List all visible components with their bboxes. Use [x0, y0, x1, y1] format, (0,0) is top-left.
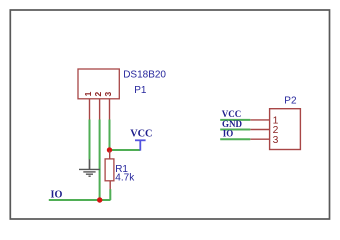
pin number 2 (P2): [273, 125, 279, 136]
svg-text:IO: IO: [51, 189, 63, 200]
connector P2 body: [270, 109, 301, 150]
power symbol VCC (bar): [135, 140, 146, 150]
pin 2 of P1: [99, 99, 101, 120]
net label IO (left): [51, 189, 63, 200]
pin 3 of P2: [250, 138, 269, 140]
pin 2 of P2: [250, 129, 269, 131]
net label VCC (P2): [222, 109, 242, 119]
svg-text:IO: IO: [223, 129, 234, 139]
svg-text:P1: P1: [134, 85, 147, 96]
wire pin3 down to junction: [109, 120, 111, 151]
svg-text:P2: P2: [284, 96, 297, 107]
designator R1: [115, 164, 128, 175]
wire pin2 down to IO net: [99, 120, 101, 201]
wire IO horizontal: [49, 199, 111, 201]
svg-text:GND: GND: [222, 119, 243, 129]
designator P2: [284, 96, 297, 107]
svg-text:2: 2: [93, 92, 103, 97]
svg-text:VCC: VCC: [130, 129, 152, 140]
wire GND to P2 pin2: [220, 129, 250, 131]
net label GND: [222, 119, 243, 129]
pin number 2 (P1): [93, 92, 103, 97]
svg-text:3: 3: [273, 135, 279, 146]
svg-text:4.7k: 4.7k: [115, 173, 135, 184]
wire junction to VCC power symbol: [110, 149, 141, 151]
pin number 1 (P2): [273, 116, 279, 127]
resistor R1 bottom lead: [109, 181, 111, 190]
label DS18B20: [123, 70, 166, 81]
pin number 1 (P1): [83, 91, 93, 96]
wire VCC to P2 pin1: [220, 119, 250, 121]
wire pin1 to ground: [89, 120, 91, 160]
svg-text:DS18B20: DS18B20: [123, 70, 166, 81]
resistor R1 body: [105, 159, 114, 181]
pin number 3 (P2): [273, 135, 279, 146]
pin number 3 (P1): [103, 92, 113, 97]
pin 1 of P1: [89, 99, 91, 120]
svg-text:1: 1: [83, 91, 93, 96]
svg-text:3: 3: [103, 92, 113, 97]
wire R1 bottom to IO net: [109, 189, 111, 200]
pin 1 of P2: [250, 119, 269, 121]
wire IO to P2 pin3: [220, 138, 250, 140]
junction dot at R1 top / pin3 node: [107, 147, 112, 152]
designator P1: [134, 85, 147, 96]
power label VCC: [130, 129, 152, 140]
net label IO (P2): [223, 129, 234, 139]
value 4.7k: [115, 173, 135, 184]
svg-text:VCC: VCC: [222, 109, 242, 119]
component P1 DS18B20 body: [78, 69, 119, 99]
ground: [79, 159, 100, 176]
resistor R1 top lead: [109, 151, 111, 160]
junction dot at IO / pin2: [97, 197, 102, 202]
pin 3 of P1: [109, 99, 111, 120]
